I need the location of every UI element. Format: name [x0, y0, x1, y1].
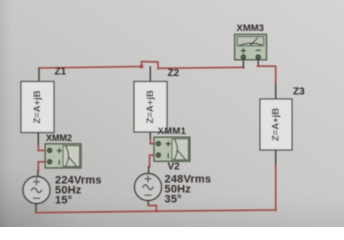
wire: V2 top pin stub [148, 167, 150, 174]
svg-text:Z3: Z3 [293, 87, 305, 98]
wire: Z3 top pin stub [275, 85, 277, 100]
wire: V1 bottom pin stub [35, 204, 37, 213]
impedance block Z1 [21, 82, 54, 133]
multimeter XMM2 [45, 144, 81, 168]
wire: XMM3 to Z3 top [258, 66, 276, 85]
svg-text:Z1: Z1 [55, 67, 67, 78]
wire: V1 top pin stub [37, 171, 39, 177]
wire: into XMM1 + terminal [150, 140, 155, 144]
svg-text:15°: 15° [55, 194, 72, 206]
wire: top node horizontal from Z1 to bump [39, 67, 142, 69]
wire: bump over Z2 pin [142, 62, 159, 69]
wire: into XMM2 + terminal [38, 146, 47, 150]
wire: Z1 bottom pin to XMM2 [37, 133, 39, 147]
multimeter XMM1 [154, 137, 190, 161]
wire: up into XMM3 + terminal [242, 60, 244, 68]
svg-text:Z=A+jB: Z=A+jB [145, 90, 156, 123]
V2 value text [165, 173, 212, 205]
multimeter XMM3 [235, 34, 267, 59]
svg-text:Z=A+jB: Z=A+jB [271, 108, 282, 141]
wire: V2 jog to bottom rail [148, 206, 156, 212]
V1 value text [55, 175, 102, 207]
svg-text:XMM3: XMM3 [237, 23, 264, 34]
svg-text:V2: V2 [168, 162, 181, 173]
svg-text:35°: 35° [165, 193, 182, 205]
svg-text:XMM1: XMM1 [158, 126, 187, 137]
node junction at Z2 top [140, 65, 143, 68]
svg-text:Z2: Z2 [168, 68, 180, 79]
wire: Z2 bottom pin stub [149, 132, 151, 140]
ac source V2 [135, 174, 162, 201]
wire: Z1 top pin stub [38, 69, 40, 82]
wire: bottom rail [36, 210, 276, 213]
impedance block Z2 [134, 82, 167, 133]
wire: XMM2 - terminal to V1 [38, 162, 47, 171]
wire: XMM3 - terminal down [257, 60, 259, 66]
ac source V1 [23, 177, 50, 204]
wire: V2 bottom pin stub [147, 200, 149, 205]
wire: top horizontal from bump to XMM3 left [158, 67, 243, 68]
impedance block Z3 [260, 99, 292, 150]
wire: Z2 top pin stub [149, 67, 151, 82]
wire: XMM1 - terminal to V2 [150, 155, 156, 167]
wire: Z3 bottom to rail [275, 163, 277, 211]
svg-text:XMM2: XMM2 [46, 133, 72, 143]
wire: Z3 bottom pin stub [275, 150, 277, 164]
svg-text:Z=A+jB: Z=A+jB [32, 90, 43, 123]
